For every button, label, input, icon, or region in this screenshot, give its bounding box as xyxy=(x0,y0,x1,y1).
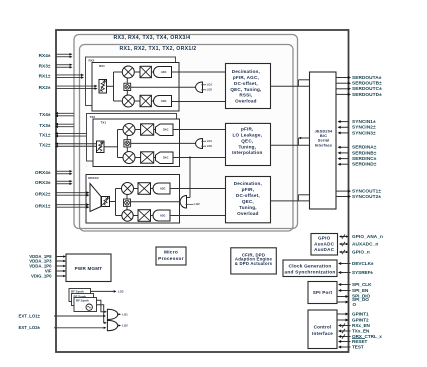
svg-text:LO1: LO1 xyxy=(207,83,213,87)
wire synth to LO1 mux xyxy=(97,300,106,312)
svg-text:LO1: LO1 xyxy=(207,139,213,143)
pin SYNCIN3± xyxy=(340,132,349,134)
svg-text:RF Synth: RF Synth xyxy=(76,299,89,303)
pin RX4± xyxy=(56,53,70,55)
svg-text:RXx_EN: RXx_EN xyxy=(352,323,371,328)
svg-text:RSSI,: RSSI, xyxy=(239,93,252,98)
wire synth to LO2 mux xyxy=(97,305,106,323)
svg-text:GPIO_ANA_n: GPIO_ANA_n xyxy=(352,234,383,239)
svg-text:LO2: LO2 xyxy=(207,88,213,92)
pin TX4± xyxy=(58,112,75,114)
RX ADC top xyxy=(154,67,172,78)
svg-text:pFIR,: pFIR, xyxy=(242,187,254,192)
wire ORX filters to ADCs xyxy=(151,188,154,190)
chip boundary xyxy=(56,30,349,352)
pin TX3± xyxy=(58,123,75,125)
ORX input select funnel xyxy=(90,184,101,212)
svg-text:LO3: LO3 xyxy=(118,289,124,293)
RF synth box 1 (front) xyxy=(74,298,97,312)
pin ORX_CTRL_x xyxy=(340,336,351,338)
svg-text:TX1: TX1 xyxy=(101,121,107,125)
svg-text:AUXADC_n: AUXADC_n xyxy=(352,241,378,246)
pin SYNCOUT2± xyxy=(336,196,349,198)
svg-text:LO2: LO2 xyxy=(195,202,201,206)
svg-text:SERDINC±: SERDINC± xyxy=(352,156,377,161)
svg-text:TEST: TEST xyxy=(352,344,364,349)
pin SERDOUTD± xyxy=(336,93,349,95)
svg-text:pFIR,: pFIR, xyxy=(241,126,253,131)
TX LO mux xyxy=(196,139,203,149)
TX DAC top xyxy=(156,124,174,136)
svg-text:Processor: Processor xyxy=(158,256,184,262)
svg-text:Tuning,: Tuning, xyxy=(239,205,257,210)
svg-text:TX3±: TX3± xyxy=(39,123,51,128)
RX mixer top xyxy=(122,66,134,78)
svg-text:PWR MGMT: PWR MGMT xyxy=(75,266,103,271)
CFIR DPD block xyxy=(231,248,276,274)
svg-text:ADC: ADC xyxy=(161,70,167,74)
svg-text:VDIG_1P0: VDIG_1P0 xyxy=(31,273,52,278)
svg-text:GPINT1: GPINT1 xyxy=(352,311,369,316)
group box RX3 RX4 TX3 TX4 ORX3/4 xyxy=(74,35,298,229)
pin SYNCIN1± xyxy=(340,121,349,123)
svg-text:Clock Generation: Clock Generation xyxy=(289,264,332,270)
svg-text:QEC,: QEC, xyxy=(242,199,254,204)
svg-text:RX3, RX4, TX3, TX4, ORX3/4: RX3, RX4, TX3, TX4, ORX3/4 xyxy=(114,35,191,41)
pin SERDINC± xyxy=(340,158,349,160)
pin GPIO_n xyxy=(340,251,347,253)
svg-text:ADC: ADC xyxy=(160,213,166,217)
RX filter top xyxy=(140,66,151,77)
wire RX attenuator to mixers split xyxy=(107,85,114,87)
svg-text:ORX1±: ORX1± xyxy=(35,203,51,208)
micro processor block xyxy=(156,247,186,265)
pin SPI_DIO xyxy=(337,296,347,298)
pin GPIO_ANA_n xyxy=(340,236,347,238)
svg-text:SERDOUTC±: SERDOUTC± xyxy=(352,86,382,91)
pin SYNCOUT1± xyxy=(336,190,349,192)
ORX filter bottom xyxy=(138,210,151,222)
wire ORX LO input xyxy=(131,201,181,203)
wire LO1 out xyxy=(118,313,120,315)
group box RX1 RX2 TX1 TX2 ORX1/2 xyxy=(80,45,294,232)
svg-text:SERDINA±: SERDINA± xyxy=(352,145,377,150)
svg-text:DEVCLK±: DEVCLK± xyxy=(352,261,374,266)
wire JESD to TX DSP xyxy=(271,144,310,146)
pin SPI_DO xyxy=(337,301,347,303)
SPI port block xyxy=(308,282,337,304)
ORX ADC bottom xyxy=(153,210,170,221)
TX filter top xyxy=(141,124,154,135)
RX2 channel box (back) xyxy=(86,57,176,106)
pin SYNCIN2± xyxy=(340,126,349,128)
svg-text:LO2: LO2 xyxy=(122,324,128,328)
pin DEVCLK± xyxy=(340,263,351,265)
svg-text:Decimation,: Decimation, xyxy=(232,69,260,74)
RX1 channel box (front) xyxy=(92,63,179,112)
svg-text:& DPD Actuators: & DPD Actuators xyxy=(235,261,273,266)
pin RXx_EN xyxy=(340,325,351,327)
svg-text:ADC: ADC xyxy=(160,186,166,190)
pin SPI_CLK xyxy=(340,284,351,286)
svg-text:SERDOUTA±: SERDOUTA± xyxy=(352,75,382,80)
pin VIF xyxy=(56,270,64,272)
control interface block xyxy=(308,310,337,349)
ORX DSP block xyxy=(226,177,271,223)
pin SERDOUTA± xyxy=(336,77,349,79)
svg-text:SERDOUTB±: SERDOUTB± xyxy=(352,81,382,86)
pin RX3± xyxy=(56,64,70,66)
svg-text:RX2: RX2 xyxy=(89,59,95,63)
pin AUXADC_n xyxy=(340,243,347,245)
pin ORX2± xyxy=(56,192,87,194)
pin TX2± xyxy=(58,143,97,145)
TX1 channel box (front) xyxy=(93,119,180,167)
svg-text:RESET: RESET xyxy=(352,339,368,344)
pin VDDA_1P0 xyxy=(56,265,64,267)
svg-text:Control: Control xyxy=(314,325,332,330)
svg-text:LO Leakage,: LO Leakage, xyxy=(233,132,263,137)
svg-text:Micro: Micro xyxy=(164,250,178,256)
TX quadrature generator xyxy=(124,140,131,147)
JESD204 serial interface block xyxy=(310,72,337,209)
ORX mixer top xyxy=(122,183,134,195)
wire TX quad gen to mixers xyxy=(126,136,128,140)
RX mixer bottom xyxy=(122,95,134,107)
wire TX mixers combine to attenuator xyxy=(118,129,124,131)
svg-text:Interface: Interface xyxy=(315,142,333,147)
wire aux synth LO output xyxy=(91,290,116,292)
RF synth box 2 (middle) xyxy=(72,294,94,306)
pin SERDINB± xyxy=(340,152,349,154)
pin ORX1± xyxy=(56,204,87,206)
pin TEST xyxy=(340,346,351,348)
RX filter bottom xyxy=(140,95,151,106)
pin VDDA_1P8 xyxy=(56,256,64,258)
wire ORX quad gen to mixers xyxy=(126,195,128,200)
wire ORX ADC outputs to ORX DSP xyxy=(170,188,226,190)
wire RX filters to ADCs xyxy=(151,71,153,73)
pin RX1± xyxy=(56,74,82,76)
svg-text:SYNCOUT2±: SYNCOUT2± xyxy=(352,194,381,199)
ORX quadrature generator xyxy=(124,199,131,206)
RESET overline xyxy=(352,338,365,340)
svg-text:ORX1/2: ORX1/2 xyxy=(88,176,99,180)
power management block xyxy=(66,254,111,282)
wire RX LO input xyxy=(131,86,196,88)
svg-text:Tuning,: Tuning, xyxy=(238,144,256,149)
pin ORX3± xyxy=(56,180,70,182)
svg-text:TX1±: TX1± xyxy=(39,132,51,137)
TX mixer bottom xyxy=(123,152,135,164)
pin RESET xyxy=(340,341,351,343)
svg-text:SPI_CLK: SPI_CLK xyxy=(352,282,372,287)
svg-text:ORX2±: ORX2± xyxy=(35,191,51,196)
wire ORX mixers to filters xyxy=(134,188,139,190)
pin EXT_LO1± xyxy=(54,315,105,317)
svg-text:Overload: Overload xyxy=(235,99,257,104)
svg-text:SERDOUTD±: SERDOUTD± xyxy=(352,92,382,97)
svg-text:AuxDAC: AuxDAC xyxy=(314,247,335,252)
wire RX quad gen to mixers xyxy=(126,78,128,83)
svg-text:Interpolation: Interpolation xyxy=(232,150,262,155)
ORX attenuator xyxy=(102,197,110,207)
svg-text:ORX3±: ORX3± xyxy=(35,180,51,185)
LO2 output mux xyxy=(107,320,117,330)
svg-text:RX2±: RX2± xyxy=(39,85,51,90)
ORX mixer bottom xyxy=(122,210,133,221)
svg-text:ORX4±: ORX4± xyxy=(35,170,51,175)
pin RX2± xyxy=(56,85,95,87)
svg-text:RX1±: RX1± xyxy=(39,74,51,79)
TX2 channel box (back) xyxy=(87,114,177,162)
svg-text:RX1, RX2, TX1, TX2, ORX1/2: RX1, RX2, TX1, TX2, ORX1/2 xyxy=(120,46,197,52)
TX mixer top xyxy=(123,124,135,136)
svg-text:Overload: Overload xyxy=(237,211,259,216)
svg-text:LO2: LO2 xyxy=(207,144,213,148)
pin SERDOUTC± xyxy=(336,88,349,90)
clock generation block xyxy=(283,260,337,277)
svg-text:TXx_EN: TXx_EN xyxy=(352,328,370,333)
GPIO AuxADC AuxDAC block xyxy=(311,234,338,256)
RX attenuator xyxy=(99,80,107,94)
ORX filter top xyxy=(138,183,151,195)
wire TX DAC inputs from TX DSP xyxy=(173,129,226,131)
ORX1/2 channel box xyxy=(86,175,180,224)
svg-text:Interface: Interface xyxy=(312,331,333,336)
pin SYSREF± xyxy=(340,272,351,274)
wire LO2 out xyxy=(118,325,120,327)
synth VCO symbol xyxy=(86,304,92,310)
svg-text:Decimation,: Decimation, xyxy=(234,181,262,186)
TX DSP block xyxy=(226,123,271,165)
svg-text:RX4±: RX4± xyxy=(39,53,51,58)
svg-text:and Synchronization: and Synchronization xyxy=(285,270,336,276)
wire TX LO input xyxy=(131,142,196,144)
svg-text:DAC: DAC xyxy=(163,128,169,132)
wire RX DSP to JESD xyxy=(271,85,310,87)
pin SPI_EN xyxy=(340,290,351,292)
svg-text:LO1: LO1 xyxy=(122,312,128,316)
svg-text:TX4±: TX4± xyxy=(39,112,51,117)
TX filter bottom xyxy=(141,152,154,163)
svg-text:DAC: DAC xyxy=(163,156,169,160)
svg-text:QEC, Tuning,: QEC, Tuning, xyxy=(230,87,261,92)
pin GPINT2 xyxy=(337,319,347,321)
RF synth box 3 (back) xyxy=(69,289,91,302)
ORX LO mux xyxy=(180,196,187,209)
pin TXx_EN xyxy=(340,330,351,332)
LO1 output mux xyxy=(107,309,117,319)
svg-text:SYNCIN3±: SYNCIN3± xyxy=(352,130,376,135)
TX attenuator xyxy=(97,141,105,153)
svg-text:SPI Port: SPI Port xyxy=(313,290,333,295)
svg-text:ADC: ADC xyxy=(161,99,167,103)
pin SERDOUTB± xyxy=(336,82,349,84)
svg-text:TX2: TX2 xyxy=(90,115,96,119)
svg-text:SYNCOUT1±: SYNCOUT1± xyxy=(352,189,381,194)
pin TX1± xyxy=(58,133,87,135)
svg-text:SPI_EN: SPI_EN xyxy=(352,288,369,293)
TX DAC bottom xyxy=(156,152,174,164)
svg-text:GPIO_n: GPIO_n xyxy=(352,249,370,254)
svg-text:EXT_LO1±: EXT_LO1± xyxy=(19,313,41,318)
wire RX mixers to filters xyxy=(134,71,140,73)
wire TX DACs to filters xyxy=(154,129,156,131)
wire RX ADC outputs to RX DSP xyxy=(172,71,226,73)
svg-text:RX1: RX1 xyxy=(99,64,105,68)
pin VDIG_1P0 xyxy=(56,275,64,277)
svg-text:SYNCIN1±: SYNCIN1± xyxy=(352,119,376,124)
pin SERDINA± xyxy=(340,146,349,148)
pin SERDIND± xyxy=(340,163,349,165)
ORX ADC top xyxy=(153,183,170,194)
svg-text:RX3±: RX3± xyxy=(39,64,51,69)
RX LO mux xyxy=(196,82,203,93)
pin GPINT1 xyxy=(337,313,347,315)
pin ORX4± xyxy=(56,170,70,172)
svg-text:RF Synth: RF Synth xyxy=(71,290,84,294)
svg-text:O: O xyxy=(353,302,357,307)
wire TX filters to mixers xyxy=(135,129,141,131)
svg-text:GPIO: GPIO xyxy=(318,236,331,241)
wire ORX DSP to JESD xyxy=(271,200,310,202)
svg-text:GPINT2: GPINT2 xyxy=(352,317,369,322)
svg-text:pFIR, AGC,: pFIR, AGC, xyxy=(233,75,259,80)
svg-text:TX2±: TX2± xyxy=(39,143,51,148)
RX ADC bottom xyxy=(154,96,172,107)
svg-text:DC-offset,: DC-offset, xyxy=(236,193,260,198)
RX DSP block xyxy=(226,64,271,109)
RX quadrature generator xyxy=(124,83,131,90)
wire ORX attenuator to mixers split xyxy=(110,201,116,203)
svg-text:SYNCIN2±: SYNCIN2± xyxy=(352,125,376,130)
svg-text:SERDIND±: SERDIND± xyxy=(352,162,377,167)
pin EXT_LO2± xyxy=(54,327,105,329)
svg-text:DC-offset,: DC-offset, xyxy=(234,81,258,86)
svg-text:AuxADC: AuxADC xyxy=(314,241,335,246)
svg-text:QEC,: QEC, xyxy=(241,138,253,143)
pin VDDA_1P3 xyxy=(56,260,64,262)
svg-text:SYSREF±: SYSREF± xyxy=(352,270,373,275)
svg-text:EXT_LO2±: EXT_LO2± xyxy=(19,325,41,330)
svg-text:SERDINB±: SERDINB± xyxy=(352,150,377,155)
wire TX LO to ORX LO mux xyxy=(189,158,191,198)
